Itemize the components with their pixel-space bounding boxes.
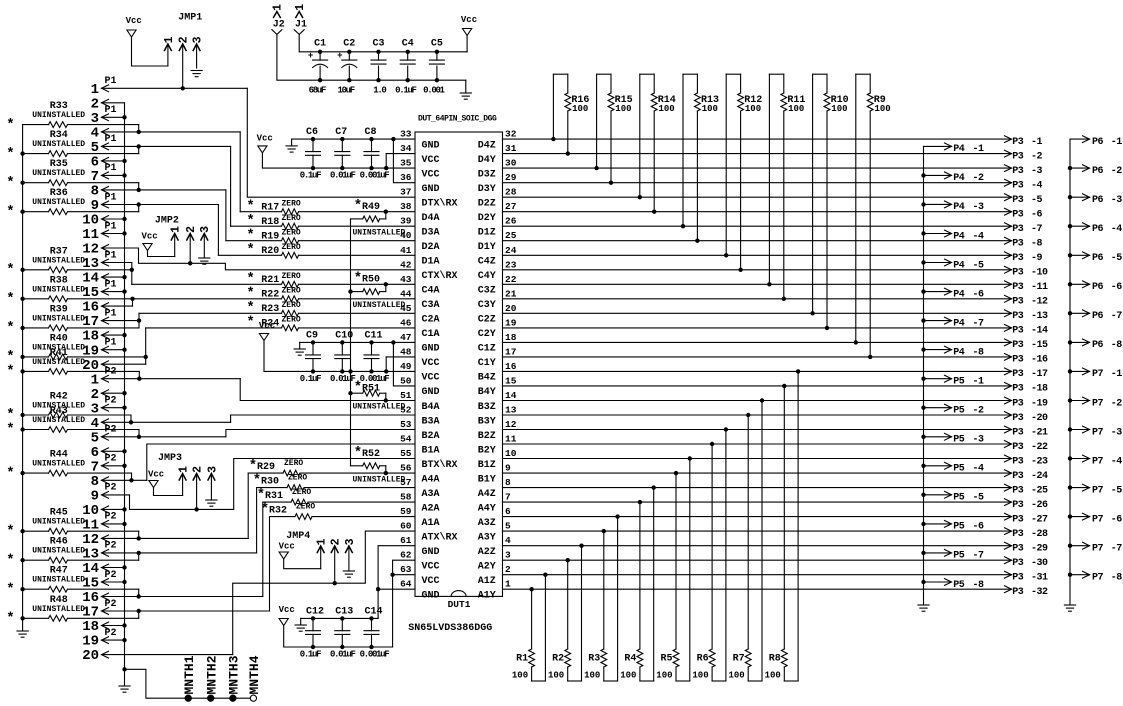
label Vcc JMP1 — [126, 16, 142, 26]
svg-text:-20: -20 — [1031, 413, 1048, 424]
connector P6 pin 3 — [0, 0, 1, 1]
pin number 32 — [505, 129, 517, 140]
junction P2-7 gnd bus — [122, 464, 126, 468]
svg-text:-1: -1 — [1031, 137, 1043, 148]
junction R13 left — [681, 224, 685, 228]
resistor R21 ZERO — [132, 281, 415, 287]
resistor R16 body — [553, 74, 570, 153]
label R39 asterisk — [6, 320, 14, 336]
JMP3 pin 2 arrow — [193, 474, 200, 481]
wire R41 to pin — [138, 371, 140, 378]
junction R38 — [130, 297, 134, 301]
JMP3 pin 1 number — [178, 466, 191, 473]
svg-text:P3: P3 — [1012, 326, 1024, 337]
P1 pin 4 number — [91, 126, 99, 142]
label P3 — [1012, 181, 1024, 192]
svg-text:D2Y: D2Y — [478, 213, 496, 224]
label R20 — [261, 246, 279, 257]
svg-text:37: 37 — [400, 187, 412, 198]
junction R15 right — [609, 181, 613, 185]
label R50 — [362, 275, 380, 286]
svg-text:*: * — [6, 422, 14, 438]
label P4 — [953, 202, 965, 213]
label P4 pin 5 — [973, 260, 985, 271]
resistor R32 ZERO — [270, 514, 416, 520]
capacitor C8 — [0, 0, 1, 1]
connector P7 pin 3 — [0, 0, 1, 1]
JMP1 pin 3 number — [192, 36, 205, 43]
connector P2 pin 17 — [0, 0, 1, 1]
svg-text:-2: -2 — [973, 406, 985, 417]
junction R7 left — [746, 413, 750, 417]
label R18 asterisk — [246, 213, 254, 229]
wire output row 27 — [503, 211, 1012, 213]
label P3 pin 5 — [1031, 195, 1043, 206]
P4 pin 2 arrow — [945, 172, 952, 179]
svg-text:P3: P3 — [1012, 587, 1024, 598]
label P3 pin 24 — [1031, 471, 1048, 482]
connector P1 pin 10 — [0, 0, 1, 1]
wire VCC rail row35 — [262, 153, 415, 168]
svg-text:100: 100 — [615, 104, 631, 114]
J1 pin arrow — [296, 12, 303, 18]
junction R42 — [129, 420, 133, 424]
svg-text:R4: R4 — [624, 654, 636, 665]
P2 pin 3 number — [91, 401, 99, 417]
label R22 zero — [282, 287, 301, 296]
connector P7 pin 6 — [0, 0, 1, 1]
junction P1-19 gnd bus — [122, 348, 126, 352]
svg-text:14: 14 — [505, 390, 517, 401]
label R23 asterisk — [246, 300, 254, 316]
wire R36 to pin — [138, 205, 140, 212]
P2 pin 20 number — [82, 648, 99, 664]
P2 pin 18 number — [82, 619, 99, 635]
P3 pin 9 arrow — [1005, 252, 1012, 259]
pin number 7 — [505, 492, 511, 503]
label C12 value — [300, 650, 321, 660]
pin label VCC — [422, 169, 440, 180]
ground C12 block — [295, 625, 306, 631]
wire P2-18 — [102, 625, 125, 627]
label C9 value — [300, 374, 321, 384]
label R35 uninstalled — [32, 169, 85, 178]
P3 pin 5 arrow — [1005, 194, 1012, 201]
P1 pin 15 number — [82, 285, 99, 301]
label P7 — [1092, 514, 1104, 525]
wire GND rail row47 — [300, 341, 415, 343]
junction P7-8 — [1068, 573, 1072, 577]
junction R4 right — [652, 485, 656, 489]
P2 pin 3 arrow — [102, 404, 109, 411]
label R42 uninstalled — [32, 402, 85, 411]
P1 pin 10 arrow — [102, 216, 109, 223]
svg-text:100: 100 — [620, 671, 636, 681]
pin number 20 — [505, 303, 517, 314]
pin number 56 — [400, 463, 412, 474]
svg-text:ZERO: ZERO — [292, 488, 311, 497]
svg-text:0.001uF: 0.001uF — [360, 171, 390, 181]
junction R47 — [137, 594, 141, 598]
label P5 — [953, 464, 965, 475]
junction C11 top — [369, 340, 373, 344]
junction P7-2 — [1068, 398, 1072, 402]
label P7 pin 6 — [1111, 514, 1123, 525]
pin number 21 — [505, 288, 517, 299]
svg-text:53: 53 — [400, 419, 412, 430]
capacitor C13 — [0, 0, 1, 1]
svg-text:-8: -8 — [973, 347, 985, 358]
label P7 pin 8 — [1111, 573, 1123, 584]
JMP3 pin 2 number — [192, 466, 205, 473]
svg-text:-8: -8 — [973, 580, 985, 591]
wire P2-16 — [102, 596, 263, 598]
svg-text:GND: GND — [422, 387, 440, 398]
label R30 — [261, 476, 279, 487]
svg-text:Vcc: Vcc — [126, 16, 142, 26]
P4 pin 4 arrow — [945, 230, 952, 237]
svg-text:C2A: C2A — [422, 315, 440, 326]
label R48 uninstalled — [32, 605, 85, 614]
pin label A2A — [422, 503, 440, 514]
P3 pin 26 arrow — [1005, 499, 1012, 506]
label P6 — [1092, 195, 1104, 206]
resistor R22 ZERO — [133, 296, 416, 302]
Vcc symbol C12 block — [279, 619, 288, 626]
svg-text:*: * — [6, 291, 14, 307]
wire P1-3 — [102, 116, 125, 118]
pin label GND — [422, 547, 440, 558]
junction R11 left — [767, 282, 771, 286]
junction P2-18 gnd bus — [122, 623, 126, 627]
wire P-net riser R23 — [138, 313, 140, 320]
svg-text:1: 1 — [178, 466, 191, 473]
label R35 asterisk — [6, 175, 14, 191]
label P3 pin 23 — [1031, 456, 1048, 467]
svg-text:1: 1 — [170, 226, 183, 233]
label R34 asterisk — [6, 146, 14, 162]
label R45 uninstalled — [32, 518, 85, 527]
wire GND riser 61 — [378, 546, 415, 619]
JMP4 pin 2 arrow — [331, 546, 338, 553]
junction C8 bottom — [369, 166, 373, 170]
svg-text:20: 20 — [505, 303, 517, 314]
P1 pin 6 number — [91, 155, 99, 171]
label P3 pin 29 — [1031, 544, 1048, 555]
wire P-net riser R22 — [132, 299, 134, 306]
junction R34 bus — [20, 151, 24, 155]
junction C3 top — [376, 50, 380, 54]
wire P1-11 — [102, 233, 125, 235]
svg-text:R31: R31 — [265, 491, 283, 502]
label P4 — [953, 347, 965, 358]
svg-text:C2: C2 — [343, 39, 355, 50]
label P7 — [1092, 485, 1104, 496]
svg-text:-3: -3 — [1111, 427, 1123, 438]
svg-text:B1Y: B1Y — [478, 474, 496, 485]
connector P1 pin 8 — [0, 0, 1, 1]
svg-text:R6: R6 — [697, 654, 709, 665]
resistor R51 (uninstalled) — [0, 0, 1, 1]
svg-text:ZERO: ZERO — [282, 243, 301, 252]
connector J1 — [0, 0, 1, 1]
P2 pin 15 arrow — [102, 579, 109, 586]
label R46 asterisk — [6, 552, 14, 568]
wire P5-8 stub — [924, 581, 952, 583]
resistor R11 100 — [0, 0, 1, 1]
svg-text:*: * — [6, 262, 14, 278]
wire P6-2 stub — [1070, 167, 1090, 169]
connector P4 pin 6 — [0, 0, 1, 1]
wire P2-13 — [102, 552, 257, 554]
junction P1-3 gnd bus — [122, 115, 126, 119]
svg-text:52: 52 — [400, 405, 412, 416]
P1 pin 16 number — [82, 300, 99, 316]
label R32 asterisk — [261, 501, 269, 517]
pin number 6 — [505, 506, 511, 517]
label P3 pin 27 — [1031, 514, 1048, 525]
junction P4-5 — [921, 260, 925, 264]
label C14 value — [360, 650, 390, 660]
label P3 — [1012, 442, 1024, 453]
svg-text:0.01uF: 0.01uF — [330, 374, 356, 384]
wire Vcc stem C1 — [466, 36, 468, 52]
junction P5-6 — [921, 522, 925, 526]
P3 pin 31 arrow — [1005, 571, 1012, 578]
svg-text:P2: P2 — [105, 425, 117, 436]
wire P4/P5 ground bus — [923, 146, 925, 605]
label P2 — [105, 628, 117, 639]
svg-text:ZERO: ZERO — [282, 287, 301, 296]
P2 pin 14 arrow — [102, 564, 109, 571]
connector P7 pin 7 — [0, 0, 1, 1]
wire P7-7 stub — [1070, 545, 1090, 547]
P3 pin 10 arrow — [1005, 266, 1012, 273]
label P3 — [1012, 485, 1024, 496]
label P5 pin 1 — [973, 377, 985, 388]
mounting hole MNTH4 — [250, 695, 256, 701]
label P5 pin 6 — [973, 522, 985, 533]
pin label A2Z — [478, 547, 496, 558]
P3 pin 27 arrow — [1005, 513, 1012, 520]
junction R44 bus — [20, 471, 24, 475]
wire P1-20 — [102, 363, 146, 365]
svg-text:-4: -4 — [1111, 456, 1123, 467]
svg-text:C1Z: C1Z — [478, 344, 496, 355]
label R15 value — [615, 104, 631, 114]
junction R35 — [137, 188, 141, 192]
label R2 — [552, 654, 564, 665]
label R8 — [769, 654, 781, 665]
P1 pin 20 arrow — [102, 361, 109, 368]
resistor R3 100 — [0, 0, 1, 1]
svg-text:P6: P6 — [1092, 224, 1104, 235]
label R20 zero — [282, 243, 301, 252]
label P3 — [1012, 137, 1024, 148]
pin label D2Z — [478, 199, 496, 210]
label R52 uninstalled — [353, 475, 406, 484]
wire P-net riser R19 — [225, 190, 227, 241]
label R6 value — [692, 671, 708, 681]
svg-text:-2: -2 — [973, 173, 985, 184]
svg-text:R5: R5 — [660, 654, 672, 665]
label P3 — [1012, 384, 1024, 395]
resistor R46 (uninstalled pulldown) — [23, 557, 139, 563]
svg-text:B4Y: B4Y — [478, 387, 496, 398]
P5 pin 8 arrow — [945, 579, 952, 586]
P1 pin 11 number — [82, 227, 99, 243]
P1 pin 1 arrow — [102, 85, 109, 92]
wire P4-6 stub — [924, 291, 952, 293]
svg-text:P6: P6 — [1092, 166, 1104, 177]
mounting hole MNTH1 — [185, 695, 191, 701]
svg-text:2: 2 — [330, 538, 343, 545]
svg-text:ZERO: ZERO — [288, 473, 307, 482]
P1 pin 17 number — [82, 314, 99, 330]
resistor R48 (uninstalled pulldown) — [23, 615, 139, 621]
connector P6 pin 1 — [0, 0, 1, 1]
P7 pin 3 arrow — [1083, 426, 1090, 433]
svg-text:-5: -5 — [973, 493, 985, 504]
connector P1 pin 4 — [0, 0, 1, 1]
pin number 2 — [505, 564, 511, 575]
svg-text:23: 23 — [505, 259, 517, 270]
label P5 pin 5 — [973, 493, 985, 504]
label R33 asterisk — [6, 117, 14, 133]
pin number 36 — [400, 172, 412, 183]
P1 pin 5 number — [91, 140, 99, 156]
junction P4-6 — [921, 289, 925, 293]
svg-text:5: 5 — [505, 521, 511, 532]
svg-text:36: 36 — [400, 172, 412, 183]
wire Vcc to JMP1-1 — [132, 37, 168, 66]
label R43 asterisk — [6, 422, 14, 438]
resistor R23 ZERO — [139, 310, 415, 316]
svg-text:100: 100 — [788, 104, 804, 114]
label R17 zero — [282, 199, 301, 208]
resistor R5 body — [673, 459, 690, 682]
label P3 — [1012, 224, 1024, 235]
label P1 — [105, 192, 117, 203]
resistor R7 body — [745, 401, 762, 682]
wire GND rail C12 — [301, 617, 378, 619]
label Vcc JMP4 — [279, 541, 295, 551]
svg-text:R18: R18 — [261, 217, 279, 228]
label P4 pin 4 — [973, 231, 985, 242]
label R16 — [571, 95, 589, 106]
label C3 value — [373, 86, 386, 96]
junction VCC row63 — [390, 573, 394, 577]
svg-text:*: * — [354, 198, 362, 214]
ground JMP4-3 — [343, 571, 354, 577]
svg-text:44: 44 — [400, 288, 412, 299]
svg-text:P5: P5 — [953, 435, 965, 446]
svg-text:A3Z: A3Z — [478, 518, 496, 529]
wire P1-9 — [102, 204, 219, 206]
label P3 — [1012, 573, 1024, 584]
connector P2 pin 10 — [0, 0, 1, 1]
resistor R19 ZERO — [226, 238, 415, 244]
svg-text:UNINSTALLED: UNINSTALLED — [32, 547, 85, 556]
capacitor C7 body — [335, 139, 350, 168]
pin number 29 — [505, 172, 517, 183]
svg-text:C1: C1 — [314, 39, 326, 50]
P2 pin 4 arrow — [102, 419, 109, 426]
label P1 — [105, 76, 117, 87]
svg-text:R17: R17 — [261, 203, 279, 214]
svg-text:UNINSTALLED: UNINSTALLED — [32, 256, 85, 265]
wire to mounting holes — [125, 669, 251, 698]
wire JMP1 pin 2 — [182, 44, 184, 88]
pin number 5 — [505, 521, 511, 532]
label R51 uninstalled — [353, 403, 406, 412]
P7 pin 7 arrow — [1083, 542, 1090, 549]
label R30 zero — [288, 473, 307, 482]
connector P6 pin 8 — [0, 0, 1, 1]
svg-text:0.001uF: 0.001uF — [360, 650, 390, 660]
wire VCC riser 62 — [393, 560, 415, 647]
wire R48 to pin — [138, 611, 140, 618]
pin number 25 — [505, 230, 517, 241]
junction C10 top — [340, 340, 344, 344]
junction R40 bus — [20, 355, 24, 359]
resistor R20 ZERO — [218, 252, 415, 258]
junction C13 top — [340, 616, 344, 620]
label R43 — [50, 406, 68, 417]
svg-text:-1: -1 — [973, 144, 985, 155]
svg-text:22: 22 — [505, 274, 517, 285]
label P4 — [953, 260, 965, 271]
svg-text:Vcc: Vcc — [461, 15, 477, 25]
svg-text:C6: C6 — [306, 127, 318, 138]
svg-text:B3A: B3A — [422, 416, 440, 427]
junction C6 top — [311, 137, 315, 141]
wire P7-4 stub — [1070, 458, 1090, 460]
svg-text:*: * — [246, 242, 254, 258]
svg-text:C7: C7 — [335, 127, 347, 138]
jumper JMP4 — [0, 0, 1, 1]
wire P2-10 — [102, 508, 125, 510]
svg-text:3: 3 — [505, 550, 511, 561]
wire BTX net — [130, 459, 416, 510]
svg-text:P4: P4 — [953, 144, 965, 155]
label R30 asterisk — [253, 472, 261, 488]
svg-text:10uF: 10uF — [337, 86, 354, 96]
wire pin48 — [386, 356, 415, 358]
pin label VCC — [422, 373, 440, 384]
label C10 — [335, 330, 353, 341]
label P2 — [105, 425, 117, 436]
pin number 35 — [400, 158, 412, 169]
label R1 — [516, 654, 528, 665]
svg-text:A2Z: A2Z — [478, 547, 496, 558]
svg-text:-26: -26 — [1031, 500, 1048, 511]
label R17 asterisk — [246, 199, 254, 215]
pin label C1A — [422, 329, 440, 340]
label P3 — [1012, 471, 1024, 482]
svg-text:VCC: VCC — [422, 155, 440, 166]
capacitor C3 body — [371, 52, 386, 80]
pin label C1Y — [478, 358, 496, 369]
svg-text:C11: C11 — [365, 330, 383, 341]
svg-text:*: * — [246, 300, 254, 316]
capacitor C12 — [0, 0, 1, 1]
junction P4-3 — [921, 202, 925, 206]
svg-text:P2: P2 — [105, 512, 117, 523]
resistor R17 ZERO — [240, 209, 415, 215]
svg-text:15: 15 — [505, 375, 517, 386]
P3 pin 16 arrow — [1005, 354, 1012, 361]
